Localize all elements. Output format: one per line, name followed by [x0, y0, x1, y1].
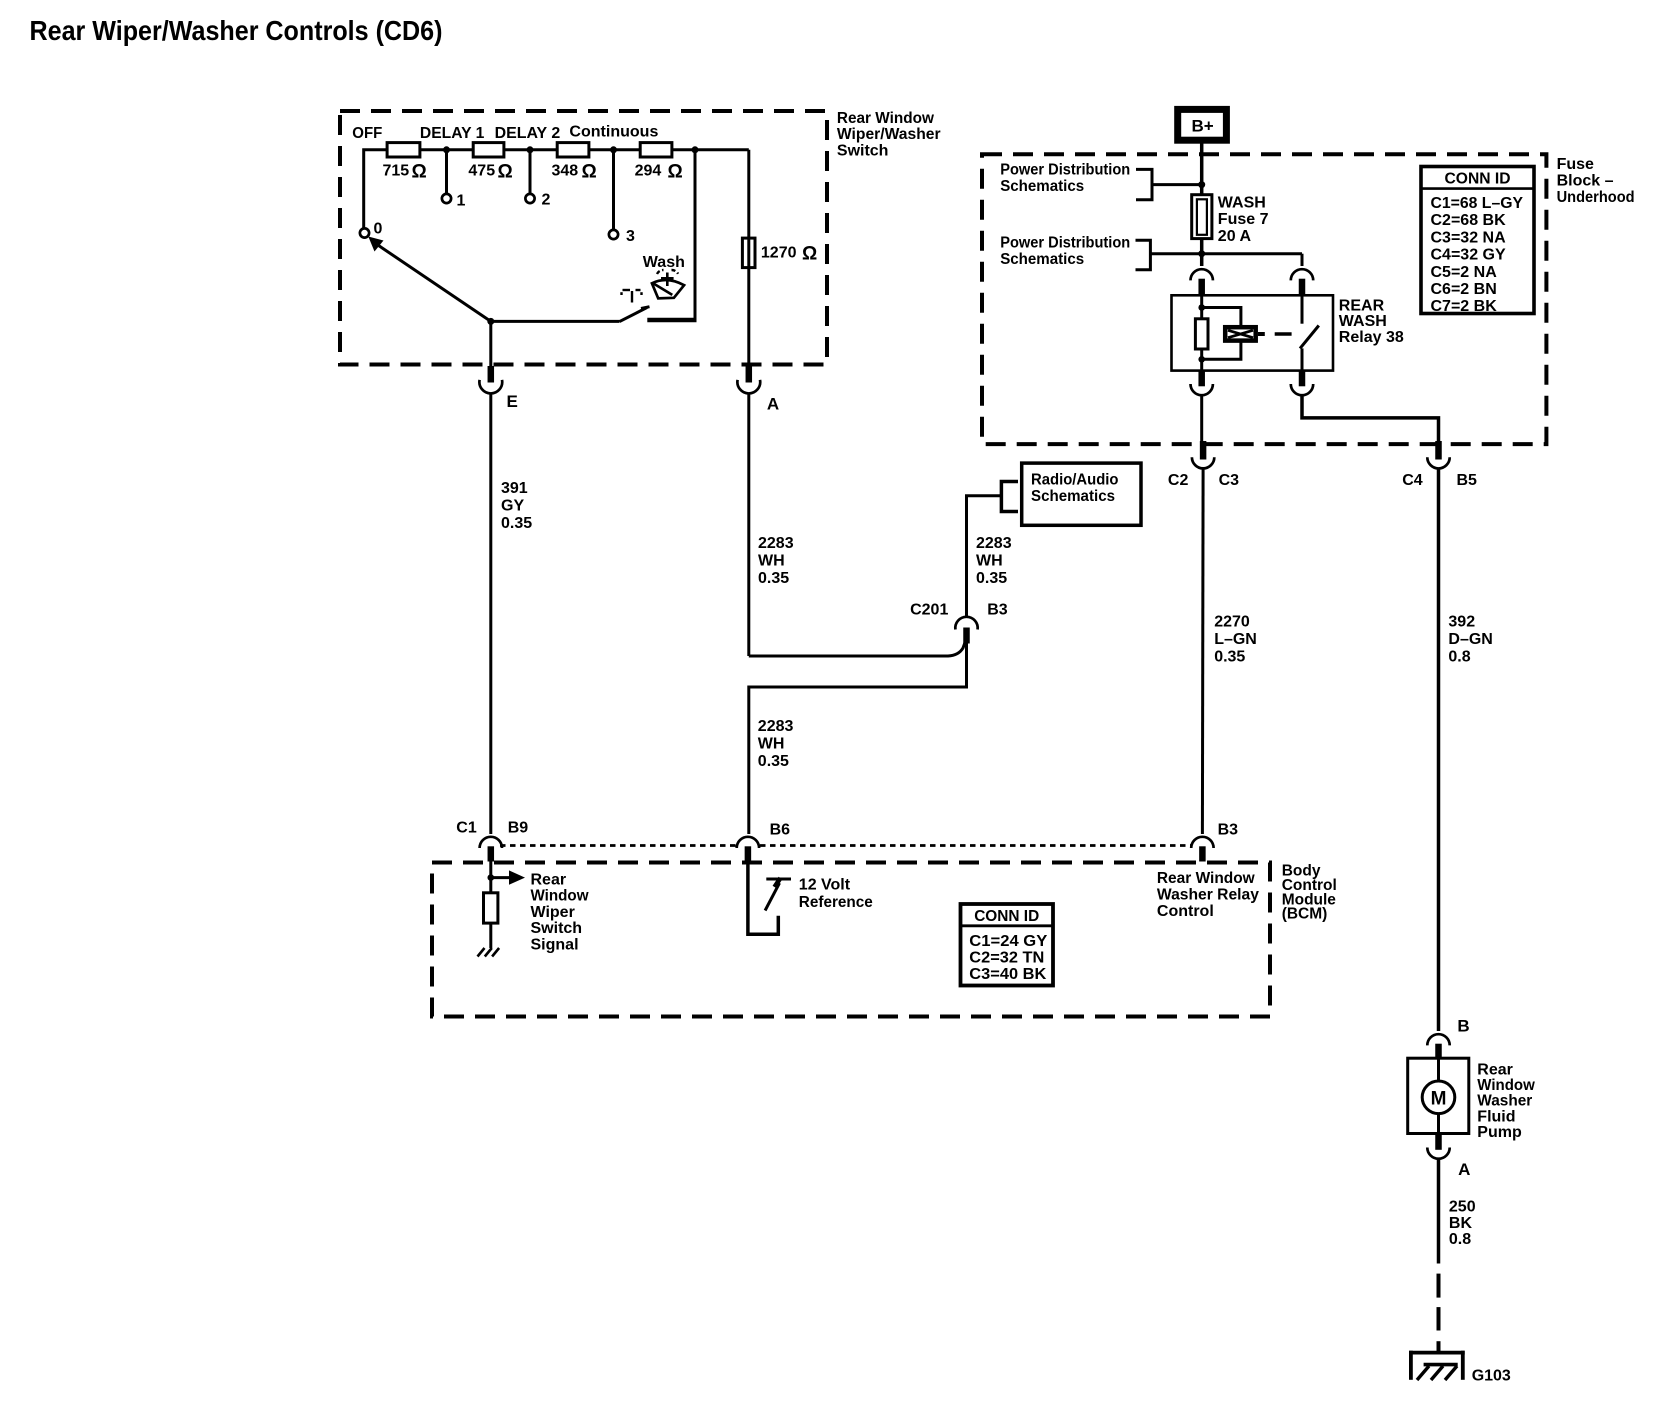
wire 392 to pump B: [1437, 469, 1441, 1032]
svg-text:C1=24 GY: C1=24 GY: [969, 933, 1047, 950]
svg-text:12 Volt: 12 Volt: [799, 877, 851, 894]
svg-text:C2=32 TN: C2=32 TN: [969, 950, 1044, 967]
relay coil suppression resistor: [1195, 319, 1208, 349]
label 391 GY 0.35: [501, 480, 532, 532]
wire switch A leg: [747, 150, 750, 367]
wire relay switch lower: [1301, 348, 1304, 370]
svg-text:C1: C1: [456, 820, 477, 837]
connector pin C2C3: [1200, 441, 1207, 460]
wire relay switch out to C4: [1302, 395, 1439, 441]
connector switch pin A: [746, 366, 753, 383]
svg-text:Rear Window: Rear Window: [1157, 870, 1255, 887]
connector pin BCM B6: [745, 846, 752, 864]
svg-text:Ω: Ω: [412, 162, 427, 183]
label 715 ohm: [383, 162, 427, 183]
svg-text:C5=2 NA: C5=2 NA: [1431, 264, 1498, 281]
svg-text:C1=68 L–GY: C1=68 L–GY: [1431, 195, 1524, 212]
svg-text:Rear: Rear: [531, 872, 567, 889]
svg-text:M: M: [1431, 1088, 1447, 1109]
connector C201 cap: [955, 617, 977, 630]
node junction continuous tap: [610, 146, 617, 153]
connector cup relay switch out: [1291, 384, 1313, 395]
icon wiper momentary dashed: [622, 290, 642, 303]
svg-text:Fluid: Fluid: [1477, 1108, 1515, 1125]
svg-text:D–GN: D–GN: [1448, 631, 1492, 648]
wire BCM B6 internal 12v ref: [748, 865, 778, 935]
svg-text:B6: B6: [770, 822, 791, 839]
svg-text:Reference: Reference: [799, 894, 873, 911]
svg-text:(BCM): (BCM): [1282, 906, 1328, 923]
svg-text:B9: B9: [508, 820, 529, 837]
BCM connector dotted line: [500, 844, 1192, 847]
svg-text:B: B: [1457, 1016, 1469, 1035]
svg-text:Wash: Wash: [643, 254, 685, 271]
label Rear Window Washer Relay Control: [1157, 870, 1259, 920]
connector pin relay coil out: [1198, 371, 1205, 387]
connector cap relay coil feed: [1191, 269, 1213, 280]
svg-text:0.35: 0.35: [758, 570, 789, 587]
relay 38 box: [1172, 295, 1334, 370]
wire coil branch: [1202, 308, 1241, 326]
chassis ground BCM: [478, 948, 500, 957]
svg-text:B3: B3: [987, 601, 1008, 618]
svg-text:Control: Control: [1157, 903, 1214, 920]
resistor BCM pull: [484, 893, 498, 923]
svg-text:C3=32 NA: C3=32 NA: [1431, 229, 1507, 246]
svg-text:DELAY 1: DELAY 1: [420, 125, 485, 142]
svg-text:Relay 38: Relay 38: [1339, 329, 1404, 346]
svg-text:0.8: 0.8: [1449, 1231, 1471, 1248]
label Fuse Block Underhood: [1557, 156, 1635, 206]
wire coil branch bottom: [1202, 342, 1241, 359]
connector switch pin E: [488, 366, 495, 383]
label 294 ohm: [635, 162, 683, 183]
terminal 2 contact: [525, 194, 534, 203]
svg-text:G103: G103: [1472, 1367, 1511, 1384]
wire to terminal 2: [529, 150, 532, 194]
svg-text:Ω: Ω: [498, 162, 513, 183]
svg-text:0.35: 0.35: [501, 515, 532, 532]
wash switch blade: [620, 307, 650, 322]
wire BCM C1 internal: [489, 862, 492, 893]
svg-text:C3=40 BK: C3=40 BK: [969, 966, 1046, 983]
wire B+ to fuse: [1200, 140, 1204, 195]
connector cap BCM C1: [480, 837, 502, 848]
connector cap BCM B6: [737, 837, 759, 848]
svg-text:Window: Window: [531, 888, 590, 905]
svg-text:20 A: 20 A: [1218, 228, 1252, 245]
svg-text:Rear Wiper/Washer Controls (CD: Rear Wiper/Washer Controls (CD6): [30, 15, 443, 46]
svg-text:WH: WH: [758, 553, 785, 570]
svg-text:715: 715: [383, 163, 410, 180]
bracket power distribution upper: [1136, 169, 1152, 199]
svg-text:Radio/Audio: Radio/Audio: [1031, 472, 1119, 489]
wire 250 BK dashed to ground: [1437, 1274, 1441, 1353]
connector pin relay switch feed: [1299, 279, 1306, 296]
svg-text:L–GN: L–GN: [1214, 631, 1257, 648]
label 475 ohm: [468, 162, 512, 183]
svg-text:Fuse 7: Fuse 7: [1218, 211, 1269, 228]
svg-text:Continuous: Continuous: [569, 124, 658, 141]
wire relay switch upper: [1301, 295, 1304, 323]
wire to terminal 1: [445, 150, 448, 194]
node relay coil bottom: [1198, 356, 1205, 363]
wire common to wash switch: [491, 320, 620, 323]
svg-text:Block –: Block –: [1557, 173, 1614, 190]
connector pin BCM C1: [488, 846, 495, 861]
svg-text:BK: BK: [1449, 1215, 1473, 1232]
label 250 BK 0.8: [1449, 1199, 1476, 1248]
connector pin C4B5: [1435, 441, 1442, 460]
resistor 294 ohm: [640, 143, 672, 157]
svg-text:C7=2 BK: C7=2 BK: [1431, 298, 1498, 315]
wire 2270 to BCM B3: [1201, 469, 1205, 835]
svg-text:0: 0: [374, 221, 383, 238]
label 392 D-GN 0.8: [1448, 613, 1492, 665]
terminal 0 contact: [360, 228, 369, 237]
connector cup C2C3: [1192, 457, 1214, 468]
wire resistor to bottom node: [1200, 349, 1203, 371]
wire below fuse horizontal: [1150, 252, 1302, 255]
svg-text:Washer Relay: Washer Relay: [1157, 887, 1259, 904]
svg-text:Schematics: Schematics: [1031, 488, 1115, 505]
wire to relay switch side: [1301, 254, 1304, 266]
svg-text:391: 391: [501, 480, 528, 497]
conn id table BCM: [961, 904, 1054, 986]
wire resistor to ground: [489, 923, 492, 948]
svg-text:B3: B3: [1218, 822, 1239, 839]
svg-text:CONN ID: CONN ID: [1445, 170, 1511, 187]
svg-text:A: A: [1458, 1160, 1470, 1179]
svg-text:Ω: Ω: [582, 162, 597, 183]
wire wash contact to bus: [694, 150, 697, 320]
connector pin BCM B3: [1199, 846, 1206, 861]
svg-text:0.8: 0.8: [1448, 648, 1470, 665]
node junction above fuse: [1198, 181, 1205, 188]
label 2283 WH 0.35 lower: [758, 718, 794, 770]
fuse WASH Fuse 7 20 A: [1192, 195, 1212, 239]
node common junction: [487, 318, 494, 325]
label 12 Volt Reference: [799, 877, 873, 912]
icon wash spray: [652, 270, 684, 298]
label Power Distribution Schematics lower: [1000, 234, 1130, 267]
terminal 3 contact: [609, 230, 618, 239]
svg-text:B+: B+: [1192, 116, 1214, 135]
svg-text:0.35: 0.35: [758, 753, 789, 770]
svg-text:1: 1: [457, 193, 466, 210]
svg-text:2283: 2283: [758, 535, 794, 552]
node junction wash tap: [692, 146, 699, 153]
svg-text:2283: 2283: [758, 718, 794, 735]
svg-text:Switch: Switch: [837, 143, 889, 160]
wire C201 up to radio branch: [967, 496, 1002, 617]
relay solenoid coil symbol: [1225, 327, 1256, 340]
conn id table fuse block: [1421, 167, 1534, 316]
resistor 475 ohm: [473, 143, 504, 157]
svg-text:C2: C2: [1168, 472, 1189, 489]
wire fuse to relay feed: [1200, 239, 1204, 266]
label WASH Fuse 7 20 A: [1218, 195, 1269, 245]
connector cup A: [737, 380, 760, 394]
label 2270 L-GN 0.35: [1214, 613, 1257, 665]
svg-text:C2=68 BK: C2=68 BK: [1431, 212, 1507, 229]
svg-text:Schematics: Schematics: [1000, 251, 1084, 268]
svg-text:C3: C3: [1219, 472, 1240, 489]
svg-text:475: 475: [468, 163, 495, 180]
relay switch blade: [1300, 326, 1319, 349]
svg-text:Switch: Switch: [531, 920, 583, 937]
connector cup relay coil out: [1191, 384, 1213, 395]
svg-text:WH: WH: [758, 736, 785, 753]
wire pump internal bottom: [1437, 1114, 1440, 1134]
svg-text:Washer: Washer: [1477, 1093, 1532, 1110]
svg-text:Rear Window: Rear Window: [837, 110, 935, 127]
connector cup E: [479, 380, 502, 394]
radio/audio schematics box: [1022, 463, 1141, 525]
wire switch resistor bus: [364, 150, 749, 229]
svg-text:Fuse: Fuse: [1557, 156, 1594, 173]
label Body Control Module BCM: [1282, 863, 1337, 923]
motor M pump: [1422, 1081, 1455, 1114]
body control module dashed box: [432, 863, 1270, 1017]
label 2283 WH 0.35 radio branch: [976, 535, 1012, 587]
label 2283 WH 0.35 upper: [758, 535, 794, 587]
terminal 1 contact: [442, 194, 451, 203]
connector cap relay switch feed: [1291, 269, 1313, 280]
wiper arm with arrowhead pointing at terminal 0: [368, 237, 491, 322]
svg-text:Ω: Ω: [802, 244, 817, 265]
label Power Distribution Schematics upper: [1000, 162, 1130, 196]
label 1270 ohm: [761, 244, 817, 265]
svg-text:OFF: OFF: [352, 125, 382, 142]
svg-text:Pump: Pump: [1477, 1124, 1522, 1141]
svg-text:2: 2: [542, 192, 551, 209]
svg-text:1270: 1270: [761, 245, 797, 262]
wire 391 E to BCM C1: [489, 393, 492, 835]
svg-text:Schematics: Schematics: [1000, 178, 1084, 195]
svg-text:392: 392: [1448, 613, 1475, 630]
svg-text:3: 3: [626, 228, 635, 245]
svg-text:Power Distribution: Power Distribution: [1000, 162, 1130, 179]
label Rear Window Washer Fluid Pump: [1477, 1062, 1535, 1141]
node junction B9 arrow: [488, 874, 495, 881]
svg-text:A: A: [767, 394, 779, 413]
wire relay coil out down: [1200, 395, 1203, 441]
connector cup C4B5: [1427, 457, 1449, 468]
svg-text:2283: 2283: [976, 535, 1012, 552]
12 volt reference symbol: [765, 878, 791, 911]
resistor 348 ohm: [557, 143, 589, 157]
node junction delay2 tap: [527, 146, 534, 153]
rear window wiper/washer switch dashed box: [340, 111, 827, 365]
wire switch E leg: [489, 321, 492, 366]
svg-text:REAR: REAR: [1339, 297, 1385, 314]
svg-text:Wiper/Washer: Wiper/Washer: [837, 126, 941, 143]
wire to terminal 3: [612, 150, 615, 230]
rear window washer fluid pump box: [1408, 1058, 1469, 1133]
label 348 ohm: [552, 162, 597, 183]
svg-text:0.35: 0.35: [976, 570, 1007, 587]
svg-text:Window: Window: [1477, 1077, 1535, 1094]
svg-text:2270: 2270: [1214, 613, 1250, 630]
connector pin relay switch out: [1299, 371, 1306, 387]
connector cap BCM B3: [1191, 837, 1213, 848]
label Rear Window Wiper Switch Signal: [531, 872, 590, 954]
resistor 1270 ohm: [742, 238, 755, 268]
connector pin pump A: [1435, 1134, 1442, 1150]
bracket power distribution lower: [1136, 240, 1151, 270]
svg-text:WASH: WASH: [1218, 195, 1266, 212]
svg-text:294: 294: [635, 163, 662, 180]
connector C201 pin B3: [963, 628, 970, 644]
svg-text:B5: B5: [1457, 472, 1478, 489]
wire 2283 horizontal into C201: [749, 643, 965, 656]
svg-text:348: 348: [552, 163, 579, 180]
battery feed B+ box: [1178, 109, 1227, 140]
svg-text:WH: WH: [976, 553, 1003, 570]
connector cup pump A: [1427, 1148, 1449, 1159]
svg-text:Power Distribution: Power Distribution: [1000, 234, 1130, 251]
fuse block underhood dashed box: [982, 154, 1546, 444]
wash switch contact bar: [647, 318, 696, 323]
wire relay coil left leg: [1200, 295, 1203, 319]
wire 250 BK solid: [1437, 1159, 1441, 1264]
svg-text:0.35: 0.35: [1214, 648, 1245, 665]
wire C201 down leg: [749, 643, 967, 834]
ground G103: [1409, 1351, 1465, 1380]
connector pin relay coil feed: [1198, 279, 1205, 296]
node relay coil top: [1198, 304, 1205, 311]
connector pin pump B: [1435, 1044, 1442, 1060]
svg-text:Signal: Signal: [531, 936, 579, 953]
node junction below fuse: [1198, 250, 1205, 257]
node junction delay1 tap: [443, 146, 450, 153]
svg-text:CONN ID: CONN ID: [974, 908, 1039, 925]
svg-text:DELAY 2: DELAY 2: [495, 125, 561, 142]
connector cap pump B: [1427, 1034, 1449, 1045]
wire pump internal top: [1437, 1058, 1440, 1081]
svg-text:GY: GY: [501, 498, 524, 515]
svg-text:Wiper: Wiper: [531, 904, 575, 921]
svg-text:C4: C4: [1402, 472, 1423, 489]
label Radio/Audio Schematics: [1031, 472, 1119, 505]
wire bracket to node: [1152, 183, 1202, 186]
relay mechanical link dashed: [1258, 332, 1292, 336]
resistor 715 ohm: [387, 143, 420, 157]
bracket to radio/audio schematics: [1001, 482, 1018, 512]
svg-text:C6=2 BN: C6=2 BN: [1431, 281, 1497, 298]
wire 2283 A leg down: [747, 393, 750, 657]
svg-text:Ω: Ω: [668, 162, 683, 183]
svg-text:E: E: [507, 392, 518, 411]
svg-text:250: 250: [1449, 1199, 1476, 1216]
svg-text:WASH: WASH: [1339, 313, 1387, 330]
label Rear Window Wiper/Washer Switch: [837, 110, 941, 160]
svg-text:C4=32 GY: C4=32 GY: [1431, 247, 1506, 264]
arrow rear window wiper switch signal: [491, 870, 525, 884]
svg-text:Underhood: Underhood: [1557, 189, 1635, 206]
svg-text:Rear: Rear: [1477, 1062, 1513, 1079]
label REAR WASH Relay 38: [1339, 297, 1404, 346]
svg-text:C201: C201: [910, 601, 948, 618]
